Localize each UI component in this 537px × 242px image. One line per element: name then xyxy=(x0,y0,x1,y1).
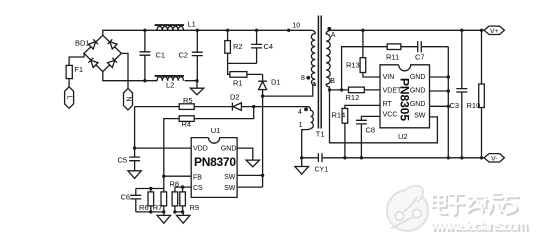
node R7 bottom xyxy=(162,210,165,213)
capacitor C7 xyxy=(418,41,449,52)
transformer core xyxy=(318,16,321,129)
svg-text:1: 1 xyxy=(299,122,303,129)
svg-text:VIN: VIN xyxy=(383,74,395,81)
wire FB divider rails xyxy=(136,189,164,212)
inductor L1 xyxy=(157,26,184,30)
phase dot pin A xyxy=(327,27,331,31)
node FB xyxy=(162,175,165,178)
node SW U1 xyxy=(261,174,264,177)
node R6 bottom xyxy=(149,210,152,213)
resistor R1 xyxy=(230,72,247,78)
node R10 bottom xyxy=(480,156,483,159)
svg-text:N: N xyxy=(125,96,132,101)
wire drain vertical to SW xyxy=(262,96,264,187)
svg-text:U1: U1 xyxy=(211,126,221,135)
bridge diode bottom-left xyxy=(88,58,98,68)
node CS xyxy=(181,185,184,188)
ground (primary to CY1) xyxy=(295,158,309,174)
capacitor C8 xyxy=(356,116,380,157)
fuse F1 xyxy=(66,65,72,78)
wire R5 to VDD node xyxy=(135,107,192,149)
node C2 top xyxy=(196,29,199,32)
svg-text:R4: R4 xyxy=(182,120,192,129)
resistor R9 xyxy=(180,192,186,206)
svg-text:F1: F1 xyxy=(74,65,83,74)
op IC U1 PN8370 box xyxy=(191,138,237,198)
wire D2 node down to R4 xyxy=(194,107,254,119)
svg-text:C6: C6 xyxy=(121,193,131,202)
svg-text:CY1: CY1 xyxy=(315,166,329,173)
wire CS line xyxy=(175,187,191,192)
svg-text:BD1: BD1 xyxy=(75,39,90,48)
transformer T1 primary winding xyxy=(311,30,315,85)
svg-text:L: L xyxy=(66,96,73,100)
phase dot pin 4 xyxy=(304,108,308,112)
svg-text:L1: L1 xyxy=(188,20,196,29)
resistor R11 xyxy=(387,44,401,50)
svg-text:4: 4 xyxy=(298,109,302,116)
svg-text:SW: SW xyxy=(224,174,236,181)
node B xyxy=(328,88,331,91)
node GND2 U2 xyxy=(447,89,450,92)
svg-text:V+: V+ xyxy=(490,28,499,35)
wire fuse to L terminal xyxy=(68,79,70,87)
svg-text:T1: T1 xyxy=(316,129,325,138)
wire GND bus xyxy=(447,47,449,158)
svg-text:C1: C1 xyxy=(156,50,166,59)
ground (C5) xyxy=(128,171,141,179)
svg-text:R13: R13 xyxy=(346,61,360,70)
svg-text:R8: R8 xyxy=(170,179,180,188)
op IC U2 PN8305 box xyxy=(380,65,430,128)
svg-text:www.elecfans.com: www.elecfans.com xyxy=(430,218,528,233)
node C8 bottom xyxy=(360,156,363,159)
node R2 top xyxy=(226,29,229,32)
ground (R9) xyxy=(177,212,190,223)
svg-text:R14: R14 xyxy=(332,110,346,119)
node D2 anode xyxy=(252,105,255,108)
terminal V+ xyxy=(484,26,504,34)
svg-text:VDD: VDD xyxy=(193,145,208,152)
capacitor C2 xyxy=(192,30,203,80)
node C1 bottom xyxy=(143,79,146,82)
node C3 bottom xyxy=(460,156,463,159)
svg-text:8: 8 xyxy=(301,75,305,82)
capacitor C5 xyxy=(129,148,140,171)
svg-text:RT: RT xyxy=(383,101,393,108)
svg-text:C4: C4 xyxy=(264,42,274,51)
wire top DC rail xyxy=(103,30,311,35)
node R10 top xyxy=(480,29,483,32)
wire secondary top rail to V+ xyxy=(331,29,485,31)
node VDD xyxy=(133,146,136,149)
svg-text:L2: L2 xyxy=(166,81,174,90)
resistor R14 xyxy=(345,105,380,157)
capacitor C1 xyxy=(139,30,150,80)
bridge diode top-right xyxy=(107,39,117,49)
svg-text:C3: C3 xyxy=(450,101,460,110)
node R6 top xyxy=(149,187,152,190)
svg-text:C5: C5 xyxy=(118,155,128,164)
svg-text:R1: R1 xyxy=(233,78,243,87)
svg-text:R5: R5 xyxy=(183,96,193,105)
ground (U1) xyxy=(246,160,259,167)
resistor R2 xyxy=(227,30,229,63)
diode D1 xyxy=(258,74,267,96)
wire drain to pin 8 xyxy=(263,85,313,96)
resistor R8 xyxy=(172,192,178,206)
resistor R6 xyxy=(150,189,152,212)
node R13 top xyxy=(361,29,364,32)
svg-text:R12: R12 xyxy=(346,93,360,102)
svg-text:GND: GND xyxy=(221,145,237,152)
bridge diode bottom-right xyxy=(107,58,117,68)
wire FB line xyxy=(164,176,191,188)
svg-text:R11: R11 xyxy=(386,52,399,61)
node R8 bottom xyxy=(173,210,176,213)
node C4 top xyxy=(255,29,258,32)
wire fuse to bridge xyxy=(69,53,84,65)
capacitor CY1 xyxy=(302,153,484,162)
node C3 top xyxy=(460,29,463,32)
transformer T1 aux winding xyxy=(302,107,314,158)
inductor L2 xyxy=(157,77,184,81)
node B-R12 xyxy=(340,88,343,91)
svg-text:A: A xyxy=(331,32,336,39)
transformer T1 secondary winding xyxy=(326,30,330,90)
wire U1 GND to ground xyxy=(237,148,253,160)
capacitor C3 xyxy=(456,30,467,158)
watermark logo circle xyxy=(387,186,428,231)
svg-text:R10: R10 xyxy=(467,101,481,110)
svg-text:PN8370: PN8370 xyxy=(194,155,236,169)
node D1 anode / drain xyxy=(261,94,264,97)
phase dot pin 8 xyxy=(306,76,310,80)
svg-text:R7: R7 xyxy=(153,203,163,212)
node rail pin10 xyxy=(287,29,290,32)
bridge diode top-left xyxy=(88,39,98,49)
wire N terminal to bridge right corner xyxy=(121,53,128,88)
svg-text:C8: C8 xyxy=(366,125,376,134)
svg-text:U2: U2 xyxy=(398,132,408,141)
svg-text:D2: D2 xyxy=(230,92,240,101)
resistor R5 xyxy=(135,106,233,108)
svg-text:C7: C7 xyxy=(415,52,425,61)
node GND1 U2 xyxy=(447,75,450,78)
svg-text:R2: R2 xyxy=(233,42,243,51)
svg-text:D1: D1 xyxy=(271,77,281,86)
svg-text:10: 10 xyxy=(292,22,300,29)
terminal V- xyxy=(484,154,504,162)
node gnd bus bottom xyxy=(447,156,450,159)
wire U2 GND stubs xyxy=(430,77,449,106)
terminal N xyxy=(124,88,133,110)
node R14 bottom xyxy=(343,156,346,159)
svg-text:SW: SW xyxy=(224,185,236,192)
ground (R7) xyxy=(157,212,170,223)
node C1 top xyxy=(143,29,146,32)
resistor R12 xyxy=(349,87,365,93)
bridge BD1 diamond xyxy=(84,35,121,71)
svg-text:SW: SW xyxy=(414,113,426,120)
svg-text:VCC: VCC xyxy=(383,112,398,119)
wire B to R11 snubber xyxy=(342,47,388,90)
diode D2 xyxy=(232,103,253,111)
wire snubber node xyxy=(228,63,257,74)
ground (input filter) xyxy=(190,81,203,95)
svg-text:C2: C2 xyxy=(179,50,189,59)
svg-text:CS: CS xyxy=(193,185,203,192)
svg-text:FB: FB xyxy=(193,174,202,181)
node CY1 primary gnd xyxy=(300,156,303,159)
capacitor C6 xyxy=(130,189,141,212)
wire AC lower rail xyxy=(103,72,197,81)
svg-text:V-: V- xyxy=(491,155,497,162)
svg-text:B: B xyxy=(330,78,335,85)
resistor R13 xyxy=(363,30,380,77)
svg-text:R9: R9 xyxy=(190,203,200,212)
watermark chinese text (shadow + white emboss) xyxy=(434,194,520,217)
node C2 bottom xyxy=(195,79,198,82)
wire D2 node to aux pin4 xyxy=(254,106,306,108)
capacitor C4 xyxy=(251,30,262,63)
svg-text:PN8305: PN8305 xyxy=(398,78,412,121)
wire B node xyxy=(330,89,381,91)
node GND3 U2 xyxy=(447,105,450,108)
terminal L xyxy=(65,87,74,109)
resistor R7 xyxy=(163,189,165,212)
resistor R10 xyxy=(481,30,483,158)
wire U1 SW stubs xyxy=(237,175,263,187)
wire SW return to B xyxy=(330,90,438,143)
resistor R4 xyxy=(179,116,194,122)
svg-text:R6: R6 xyxy=(139,203,149,212)
node R9 bottom xyxy=(181,210,184,213)
